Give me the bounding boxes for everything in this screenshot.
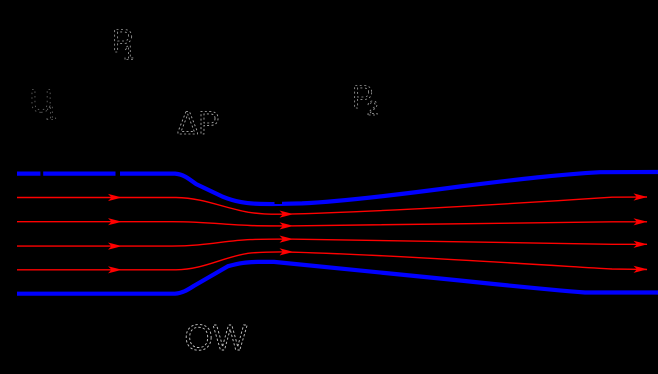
arrowhead right streamline 1: [634, 193, 648, 200]
wire bottom pipe wall: [17, 262, 658, 294]
label P1: [112, 23, 135, 65]
arrowhead mid streamline 1: [280, 211, 294, 218]
label delta-P: [177, 105, 220, 141]
streamline 3: [17, 239, 647, 246]
arrowhead left streamline 2: [108, 218, 122, 225]
streamline 4: [17, 252, 647, 270]
arrowhead right streamline 4: [634, 266, 648, 273]
arrowhead left streamline 3: [108, 243, 122, 250]
streamline 2: [17, 222, 647, 226]
svg-text:OW: OW: [185, 317, 248, 358]
arrowhead mid streamline 4: [280, 248, 294, 255]
svg-text:1: 1: [46, 103, 57, 125]
svg-text:ΔP: ΔP: [177, 105, 220, 141]
label U1: [30, 83, 57, 125]
arrowhead left streamline 1: [108, 194, 122, 201]
gap mark on top wall (tap 1): [40, 169, 43, 178]
streamline 1: [17, 197, 647, 214]
svg-text:2: 2: [367, 98, 378, 120]
arrowhead left streamline 4: [108, 266, 122, 273]
label P2: [352, 79, 378, 120]
gap mark on top wall (throat tap): [275, 199, 283, 205]
arrowhead mid streamline 3: [280, 236, 294, 243]
arrowhead right streamline 2: [634, 218, 648, 225]
arrowhead mid streamline 2: [280, 222, 294, 229]
gap mark on top wall (tap 2): [116, 169, 121, 178]
svg-text:1: 1: [124, 43, 135, 65]
arrowhead right streamline 3: [634, 241, 648, 248]
label OW (flow): [185, 317, 248, 358]
wire top pipe wall: [17, 172, 658, 204]
